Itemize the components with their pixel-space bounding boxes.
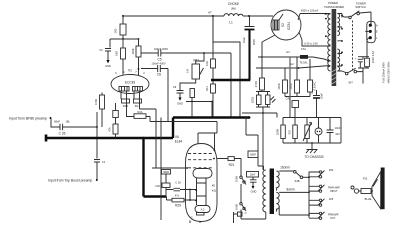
svg-text:GND: GND — [251, 190, 257, 194]
wire lamp to bus — [240, 107, 277, 118]
speaker horn — [372, 172, 381, 209]
svg-text:A 2: A 2 — [201, 208, 205, 212]
tube V6 inner screen — [193, 169, 212, 179]
wire plate feed from bus — [246, 118, 264, 171]
svg-text:C9: C9 — [173, 85, 177, 89]
tube V6 grid dashes — [188, 154, 214, 168]
svg-text:C6: C6 — [157, 73, 161, 77]
svg-text:250V 3.5A: 250V 3.5A — [371, 51, 375, 63]
svg-text:C40: C40 — [286, 97, 291, 101]
svg-text:L1: L1 — [229, 21, 233, 25]
svg-text:560R: 560R — [250, 154, 256, 157]
capacitor C9 — [177, 79, 196, 98]
capacitor C8 electrolytic — [245, 16, 255, 27]
svg-text:HT: HT — [208, 11, 212, 15]
snubber capacitor and resistor across switch — [358, 43, 369, 72]
resistor R4.1 — [122, 99, 130, 103]
node transformer right tap dots — [341, 15, 343, 17]
svg-text:EL84: EL84 — [175, 140, 183, 144]
capacitor C5 coupling — [141, 50, 231, 57]
svg-text:68nF: 68nF — [54, 119, 60, 123]
svg-text:100nF 400V: 100nF 400V — [154, 47, 168, 51]
tube V6 EL84 envelope — [186, 144, 218, 222]
component S32 heater tap — [297, 59, 310, 97]
wire V1 plate node — [110, 38, 139, 40]
resistor filter 1 — [282, 118, 284, 144]
heater line H2 — [256, 66, 330, 69]
svg-text:OUT: OUT — [330, 217, 336, 220]
svg-text:(6H): (6H) — [231, 7, 236, 11]
wire V2 heater tap — [299, 32, 330, 46]
jack 3 — [309, 199, 325, 205]
svg-text:Input from BF86 preamp: Input from BF86 preamp — [9, 116, 47, 120]
svg-text:100K: 100K — [131, 48, 135, 54]
capacitor bottom right of tube — [238, 212, 243, 216]
resistor filter 2 — [294, 118, 296, 144]
svg-text:C40: C40 — [155, 184, 160, 188]
wire earth pin stub — [365, 31, 369, 43]
svg-text:6.3V a 1.5A: 6.3V a 1.5A — [304, 42, 318, 46]
svg-text:18k: 18k — [65, 119, 70, 123]
svg-text:H2: H2 — [290, 62, 294, 66]
svg-text:MAINS 230V 50Hz: MAINS 230V 50Hz — [387, 61, 391, 83]
resistor R7 — [211, 59, 216, 68]
svg-text:470K: 470K — [94, 99, 98, 105]
switch linkage dashed — [352, 21, 354, 71]
capacitor filter — [327, 118, 334, 144]
svg-text:6.3VAC: 6.3VAC — [313, 82, 317, 91]
wire jack bus — [308, 172, 310, 218]
svg-text:1K8: 1K8 — [115, 51, 119, 56]
tube V1 internal plates — [119, 87, 129, 92]
node transformer left tap dots — [325, 18, 327, 20]
capacitor C18 — [167, 188, 197, 191]
choke L1 — [224, 14, 243, 16]
resistor R6 top left — [120, 24, 126, 35]
wire V2 left down to H1 — [262, 35, 275, 57]
svg-text:47n: 47n — [175, 194, 180, 198]
svg-text:POWER: POWER — [328, 1, 338, 5]
svg-text:10nF: 10nF — [335, 126, 341, 130]
svg-text:ECC83: ECC83 — [125, 81, 136, 85]
power transformer core — [332, 9, 337, 86]
node tube pins — [195, 189, 197, 191]
wire filter right leg — [340, 118, 342, 144]
tube V6 base capsule — [195, 206, 210, 213]
svg-text:100nF 400V: 100nF 400V — [151, 62, 165, 66]
fuse FS1 — [300, 55, 308, 59]
tube V6 inner cathode rails — [197, 178, 207, 205]
svg-text:S47: S47 — [348, 81, 353, 85]
resistor mesh below V1 — [115, 103, 117, 138]
svg-text:225: 225 — [329, 197, 334, 201]
wire HT rail top — [123, 15, 271, 17]
tube V6 base pin box — [197, 212, 205, 215]
tube V1 ECC83 — [111, 75, 149, 94]
svg-text:LED1: LED1 — [251, 96, 255, 103]
switch on leg upper — [240, 176, 242, 178]
svg-text:INPUT: INPUT — [330, 190, 338, 193]
wire grid stopper row — [152, 167, 187, 169]
svg-text:V1: V1 — [128, 69, 132, 73]
svg-text:TO CHASSIS: TO CHASSIS — [304, 155, 323, 159]
capacitor C26 — [51, 118, 97, 130]
chassis symbol — [306, 143, 318, 153]
svg-text:G: G — [190, 216, 192, 220]
svg-text:TRANSFORMER: TRANSFORMER — [324, 5, 344, 9]
svg-text:T6.3AL: T6.3AL — [299, 61, 308, 65]
tube V2 anode plates — [273, 20, 279, 30]
svg-text:100R: 100R — [277, 83, 281, 89]
svg-text:250K: 250K — [276, 129, 280, 135]
svg-text:POWER: POWER — [356, 2, 366, 6]
svg-text:16ohm: 16ohm — [280, 166, 290, 170]
tube V2 GZ34 rectifier — [271, 10, 301, 40]
svg-text:BLUE: BLUE — [365, 197, 372, 201]
output transformer secondary — [276, 171, 279, 191]
switch S4B — [294, 171, 297, 174]
svg-text:8ohm: 8ohm — [287, 188, 295, 192]
power transformer secondary winding left — [328, 14, 331, 71]
svg-text:#11: #11 — [212, 189, 217, 193]
switch S47 — [342, 71, 346, 73]
svg-text:360R: 360R — [163, 171, 169, 174]
wire secondary taps — [279, 171, 309, 215]
resistor R29 — [167, 190, 197, 201]
resistor humdinger C — [285, 57, 297, 97]
resistor R3 cathode — [121, 48, 126, 59]
svg-text:450V: 450V — [252, 39, 256, 45]
capacitor C2 — [105, 39, 111, 57]
svg-text:V2: V2 — [281, 23, 285, 27]
output transformer primary — [263, 170, 266, 212]
ground below C2 — [107, 57, 109, 60]
resistor R1A — [127, 103, 151, 117]
svg-text:N: N — [376, 24, 378, 27]
capacitor electrolytic 25uF — [313, 90, 320, 118]
bold branch to V6 grid — [144, 138, 167, 197]
resistor box 560 — [248, 151, 258, 158]
svg-text:FS1: FS1 — [301, 47, 306, 51]
wire screen line — [186, 101, 213, 103]
heater line H1 — [258, 56, 300, 58]
wire x231 vertical — [230, 53, 232, 118]
svg-text:C 18: C 18 — [175, 181, 181, 185]
wire centre tap grey — [289, 57, 291, 118]
wire x213 vertical — [212, 16, 214, 118]
svg-text:C5: C5 — [157, 58, 161, 62]
wire step to grid line — [150, 117, 217, 151]
svg-text:1M: 1M — [186, 69, 190, 73]
lamp LED1 cluster — [256, 90, 270, 107]
svg-text:S4B: S4B — [295, 179, 300, 183]
wire step two — [140, 103, 157, 168]
wire screen feed — [262, 113, 264, 170]
mains filter bottom bus — [283, 142, 341, 144]
resistor small above screen line — [190, 89, 195, 98]
svg-text:10K: 10K — [205, 61, 209, 66]
resistor 360 box — [162, 170, 171, 175]
resistor humdinger B — [284, 68, 286, 97]
wire tube bottom stubs — [190, 221, 200, 224]
svg-text:C: C — [245, 211, 247, 215]
node HT junction — [122, 15, 124, 17]
ground bus bold — [211, 79, 250, 81]
svg-text:100K: 100K — [235, 176, 239, 182]
resistor R10 anode — [136, 46, 141, 57]
wire input vertical — [96, 112, 98, 180]
output transformer core — [270, 169, 274, 215]
svg-text:C2: C2 — [99, 48, 103, 52]
jack 4 — [309, 212, 325, 218]
svg-text:100K: 100K — [235, 204, 239, 210]
mains filter top bus — [283, 117, 341, 119]
svg-text:R21: R21 — [229, 163, 235, 167]
wire jog to x240 — [213, 16, 240, 118]
wire long vertical x161 — [160, 118, 162, 221]
svg-text:GND: GND — [105, 64, 111, 68]
resistor R4.2 — [134, 99, 142, 103]
mains connector — [367, 21, 375, 42]
svg-text:R37: R37 — [288, 129, 292, 134]
wire into V2 — [271, 14, 283, 20]
resistor R11 — [211, 84, 216, 93]
jack 1 — [309, 171, 325, 177]
wire V2 cathode to transformer top — [298, 14, 330, 21]
jack 2 — [309, 185, 325, 191]
svg-text:C 26: C 26 — [59, 132, 66, 136]
power transformer primary winding right — [337, 14, 339, 36]
svg-text:GND: GND — [177, 102, 183, 106]
capacitor on input vertical — [94, 160, 100, 166]
ground below C9 — [178, 98, 181, 101]
bold signal wire input — [45, 135, 48, 142]
resistor R2 grid left — [100, 95, 105, 109]
svg-text:R29: R29 — [175, 204, 181, 208]
svg-text:250: 250 — [329, 168, 334, 172]
svg-text:CHOKE: CHOKE — [228, 2, 239, 6]
svg-text:15nF: 15nF — [250, 174, 256, 177]
svg-text:Input from Top Boost preamp: Input from Top Boost preamp — [48, 179, 92, 183]
capacitor small box mid right — [292, 101, 299, 108]
speaker resistor box — [361, 189, 371, 194]
switch on leg lower — [240, 203, 242, 205]
neon lamp — [318, 118, 320, 144]
svg-text:SWITCH: SWITCH — [355, 5, 365, 9]
svg-text:R11: R11 — [205, 86, 209, 91]
svg-text:3kV: 3kV — [335, 132, 340, 136]
capacitor GND cluster — [247, 172, 259, 178]
svg-text:FUS 250mA 240V: FUS 250mA 240V — [382, 62, 386, 83]
svg-text:470R: 470R — [254, 81, 258, 87]
wire primary bottom return — [241, 212, 266, 219]
svg-text:V6: V6 — [175, 135, 179, 139]
svg-text:600V a 120mA: 600V a 120mA — [301, 9, 318, 13]
tube V1 pin leads — [121, 91, 140, 103]
svg-text:R1A: R1A — [137, 110, 142, 114]
svg-text:16uF: 16uF — [242, 37, 246, 43]
svg-text:C1: C1 — [102, 160, 106, 164]
svg-text:25uF: 25uF — [320, 93, 324, 99]
capacitor C40b box — [162, 183, 170, 188]
potentiometer VR1 — [192, 64, 200, 79]
capacitor C6 coupling — [141, 65, 168, 72]
varistor — [306, 118, 308, 144]
speaker terminal circles — [351, 186, 354, 189]
resistor R21 — [217, 158, 241, 160]
svg-text:4D: 4D — [212, 184, 215, 188]
wire C6 output down — [167, 69, 169, 122]
svg-text:47k: 47k — [108, 127, 112, 132]
svg-text:P12: P12 — [363, 177, 368, 181]
svg-text:R4.1: R4.1 — [123, 104, 129, 108]
svg-text:GZ34: GZ34 — [287, 22, 291, 30]
resistor R humdinger A — [261, 57, 263, 78]
svg-text:1K5: 1K5 — [114, 28, 118, 33]
svg-text:H1: H1 — [286, 50, 290, 54]
wire R21 down leg — [240, 159, 242, 220]
